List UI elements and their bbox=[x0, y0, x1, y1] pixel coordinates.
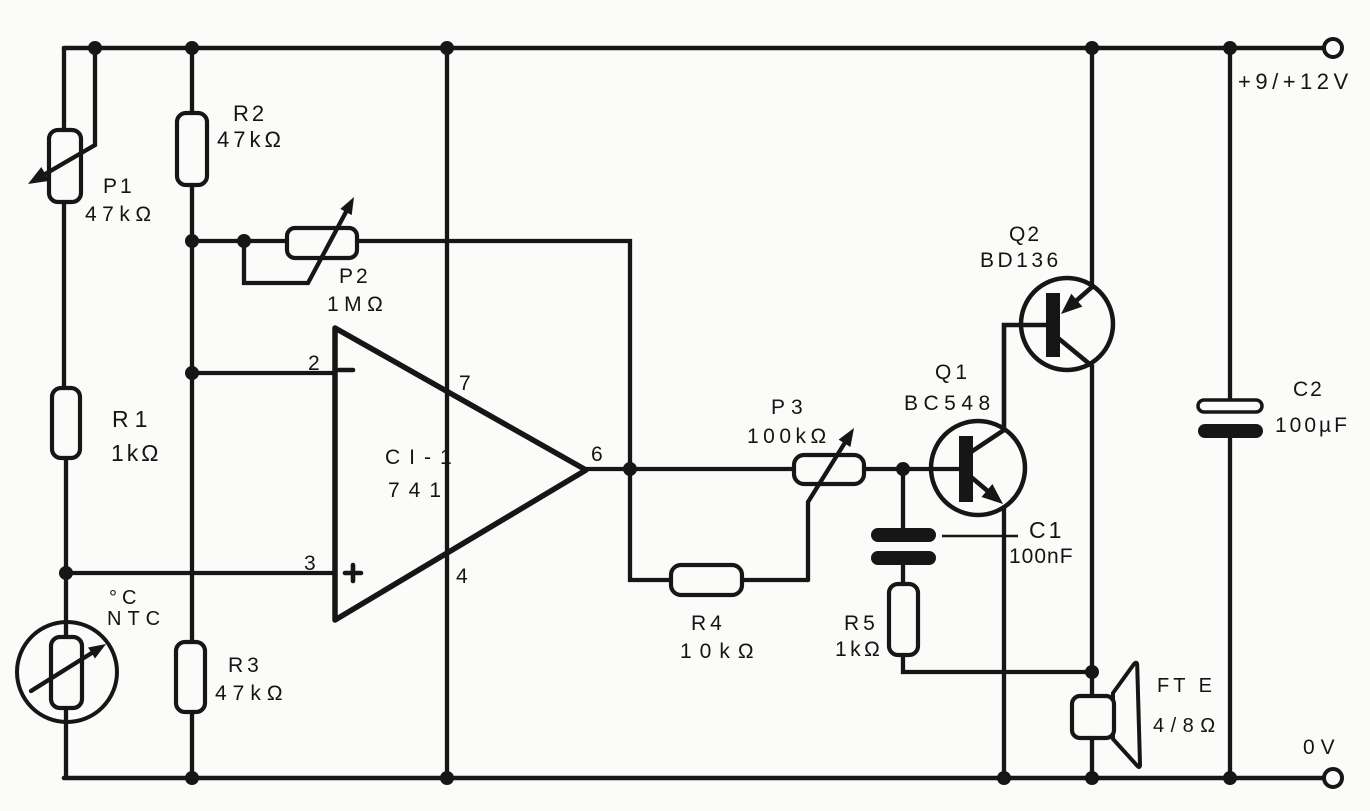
svg-text:C2: C2 bbox=[1293, 378, 1324, 401]
label BC548 bbox=[904, 392, 996, 415]
wire speaker to 0V bbox=[1090, 738, 1094, 778]
svg-text:BD136: BD136 bbox=[980, 249, 1062, 272]
node D output junction bbox=[623, 462, 637, 476]
svg-text:0V: 0V bbox=[1303, 736, 1341, 759]
transistor Q1 emitter with arrow bbox=[971, 477, 1003, 504]
wire R3 to 0V rail bbox=[190, 712, 194, 778]
wire rail to C2 bbox=[1228, 48, 1232, 400]
svg-text:R3: R3 bbox=[228, 654, 263, 677]
transistor Q1 collector bbox=[971, 325, 1046, 452]
svg-text:47kΩ: 47kΩ bbox=[85, 203, 157, 226]
wire Q1 emitter to 0V bbox=[1002, 507, 1006, 778]
wire bottom 0V rail bbox=[64, 776, 1324, 781]
node F speaker junction bbox=[1085, 665, 1099, 679]
capacitor C1 plate 2 bbox=[871, 551, 936, 565]
svg-text:P1: P1 bbox=[103, 175, 135, 198]
wire supply through op-amp (pins 7/4) bbox=[445, 48, 449, 778]
svg-text:1kΩ: 1kΩ bbox=[111, 440, 162, 466]
wire C1 to R5 bbox=[901, 565, 905, 585]
node E Q1 base junction bbox=[896, 462, 910, 476]
pin 2 label bbox=[308, 352, 320, 375]
label FTE impedance bbox=[1153, 715, 1222, 737]
junction dot R3/0V bbox=[185, 771, 199, 785]
junction dot P2 wiper tie bbox=[237, 234, 251, 248]
label 741 bbox=[388, 479, 450, 502]
svg-text:+9/+12V: +9/+12V bbox=[1238, 69, 1353, 94]
svg-text:Q2: Q2 bbox=[1009, 223, 1041, 246]
speaker FTE horn bbox=[1113, 663, 1140, 767]
wire op-amp output pin6 bbox=[586, 467, 630, 471]
node C junction pin2 bbox=[185, 366, 199, 380]
C1 label pointer line bbox=[942, 535, 1018, 538]
potentiometer P2 body bbox=[287, 228, 357, 258]
thermistor NTC circle bbox=[17, 622, 117, 722]
label P2 value 1M bbox=[327, 293, 388, 316]
svg-text:47kΩ: 47kΩ bbox=[215, 682, 289, 705]
svg-text:P2: P2 bbox=[339, 265, 371, 288]
wire P1 to R1 bbox=[62, 202, 66, 388]
capacitor C2 plate + (hollow) bbox=[1198, 400, 1262, 412]
pin 6 label bbox=[591, 443, 603, 466]
potentiometer P2 wiper arm bbox=[244, 197, 354, 283]
transistor Q1 circle bbox=[931, 421, 1025, 515]
label R5 bbox=[844, 612, 879, 635]
wire R1 to node A bbox=[64, 458, 68, 637]
terminal 0V bbox=[1324, 769, 1342, 787]
junction dot rail/Q2 bbox=[1085, 41, 1099, 55]
pin 3 label bbox=[304, 552, 316, 575]
wire top supply rail bbox=[64, 46, 1324, 51]
junction dot pin4 wire/0V bbox=[440, 771, 454, 785]
resistor R5 bbox=[889, 584, 918, 655]
wire node B to pin2 node bbox=[190, 241, 194, 373]
resistor R3 bbox=[176, 642, 205, 712]
resistor R4 bbox=[671, 565, 742, 595]
label R2 bbox=[233, 101, 267, 126]
junction dot rail/pin7 wire bbox=[440, 41, 454, 55]
wire R4 to P3 wiper bbox=[742, 578, 808, 582]
capacitor C1 plate 1 bbox=[871, 528, 936, 542]
speaker FTE driver box bbox=[1072, 696, 1114, 738]
label R1 value 1k bbox=[111, 440, 162, 466]
thermistor NTC body bbox=[51, 637, 82, 708]
svg-text:10kΩ: 10kΩ bbox=[680, 640, 762, 663]
potentiometer P3 wiper arm bbox=[808, 428, 854, 580]
op-amp U1 741 triangle bbox=[335, 328, 586, 620]
svg-text:47kΩ: 47kΩ bbox=[217, 127, 285, 152]
capacitor C2 plate - (solid) bbox=[1198, 424, 1263, 438]
label P1 value 47k bbox=[85, 203, 157, 226]
svg-text:R2: R2 bbox=[233, 101, 267, 126]
wire output down to R4 bbox=[630, 469, 671, 580]
junction dot rail/R2 bbox=[185, 41, 199, 55]
label P2 bbox=[339, 265, 371, 288]
label R3 value 47k bbox=[215, 682, 289, 705]
wire C2 to 0V bbox=[1228, 438, 1232, 778]
svg-text:3: 3 bbox=[304, 552, 316, 575]
label C1 value 100nF bbox=[1009, 545, 1074, 568]
wire R5 to speaker node bbox=[903, 655, 1092, 672]
svg-text:R5: R5 bbox=[844, 612, 879, 635]
op-amp plus sign bbox=[345, 565, 361, 581]
wire P2 to feedback corner bbox=[357, 241, 630, 469]
transistor Q2 circle bbox=[1021, 278, 1113, 370]
label 0V bbox=[1303, 736, 1341, 759]
wire pin2 input bbox=[192, 371, 335, 375]
svg-text:741: 741 bbox=[388, 479, 450, 502]
transistor Q1 base bar bbox=[959, 436, 973, 502]
label FTE bbox=[1157, 675, 1216, 697]
potentiometer P1 wiper arm bbox=[28, 48, 95, 184]
label R5 value 1k bbox=[835, 638, 883, 661]
wire Q2 collector to speaker bbox=[1090, 366, 1094, 696]
svg-text:NTC: NTC bbox=[107, 608, 166, 630]
thermistor NTC arrow bbox=[31, 644, 106, 691]
svg-text:4/8Ω: 4/8Ω bbox=[1153, 715, 1222, 737]
junction dot speaker/0V bbox=[1085, 771, 1099, 785]
svg-text:BC548: BC548 bbox=[904, 392, 996, 415]
resistor R2 bbox=[177, 113, 207, 185]
junction dot Q1 emitter/0V bbox=[997, 771, 1011, 785]
transistor Q2 collector bbox=[1058, 338, 1092, 366]
label R1 bbox=[112, 406, 153, 432]
wire node C to R3 bbox=[190, 373, 194, 642]
svg-text:1MΩ: 1MΩ bbox=[327, 293, 388, 316]
wire node B to P2 bbox=[192, 239, 287, 243]
wire rail to R2 bbox=[190, 48, 194, 113]
wire base node down to C1 bbox=[901, 469, 905, 529]
label +9/+12V bbox=[1238, 69, 1353, 94]
node A junction R1/NTC/pin3 bbox=[59, 566, 73, 580]
svg-text:Q1: Q1 bbox=[935, 361, 971, 384]
svg-text:1kΩ: 1kΩ bbox=[835, 638, 883, 661]
svg-text:100kΩ: 100kΩ bbox=[747, 425, 831, 448]
label CI-1 bbox=[385, 446, 461, 469]
label BD136 bbox=[980, 249, 1062, 272]
label P3 value 100k bbox=[747, 425, 831, 448]
label R3 bbox=[228, 654, 263, 677]
svg-text:°C: °C bbox=[109, 587, 141, 609]
pin 4 label bbox=[456, 565, 468, 588]
svg-text:CI-1: CI-1 bbox=[385, 446, 461, 469]
resistor R1 bbox=[52, 388, 80, 458]
potentiometer P3 body bbox=[794, 455, 864, 484]
svg-text:R1: R1 bbox=[112, 406, 153, 432]
svg-text:6: 6 bbox=[591, 443, 603, 466]
label C2 value 100uF bbox=[1275, 414, 1350, 437]
wire NTC to 0V rail bbox=[64, 708, 68, 778]
junction dot rail/C2 bbox=[1223, 41, 1237, 55]
node B junction R2/P2 bbox=[185, 234, 199, 248]
svg-text:100nF: 100nF bbox=[1009, 545, 1074, 568]
transistor Q2 emitter with arrow (PNP) bbox=[1061, 287, 1092, 314]
wire output to P3 bbox=[630, 467, 794, 471]
wire rail to Q2 emitter bbox=[1090, 48, 1094, 287]
label degC bbox=[109, 587, 141, 609]
svg-text:R4: R4 bbox=[691, 612, 726, 635]
svg-text:7: 7 bbox=[459, 372, 471, 395]
wire pin3 input bbox=[66, 571, 335, 575]
terminal +V bbox=[1324, 39, 1342, 57]
svg-text:2: 2 bbox=[308, 352, 320, 375]
svg-text:4: 4 bbox=[456, 565, 468, 588]
label R2 value 47k bbox=[217, 127, 285, 152]
svg-text:100µF: 100µF bbox=[1275, 414, 1350, 437]
junction dot C2/0V bbox=[1223, 771, 1237, 785]
junction dot rail/P1 wiper bbox=[88, 41, 102, 55]
label C1 bbox=[1029, 517, 1064, 543]
label C2 bbox=[1293, 378, 1324, 401]
wire left column top (rail to P1) bbox=[62, 48, 66, 131]
wire P3 to Q1 base node bbox=[864, 467, 903, 471]
label Q1 bbox=[935, 361, 971, 384]
label Q2 bbox=[1009, 223, 1041, 246]
pin 7 label bbox=[459, 372, 471, 395]
wire base node to Q1 bbox=[903, 467, 959, 471]
potentiometer P1 body bbox=[49, 130, 81, 202]
label R4 bbox=[691, 612, 726, 635]
transistor Q2 base bar bbox=[1046, 293, 1060, 357]
svg-text:P3: P3 bbox=[771, 396, 809, 419]
svg-text:C1: C1 bbox=[1029, 517, 1064, 543]
label NTC bbox=[107, 608, 166, 630]
op-amp minus sign bbox=[339, 368, 353, 373]
label P3 bbox=[771, 396, 809, 419]
label P1 bbox=[103, 175, 135, 198]
svg-text:FT E: FT E bbox=[1157, 675, 1216, 697]
label R4 value 10k bbox=[680, 640, 762, 663]
wire R2 to node B bbox=[190, 185, 194, 241]
